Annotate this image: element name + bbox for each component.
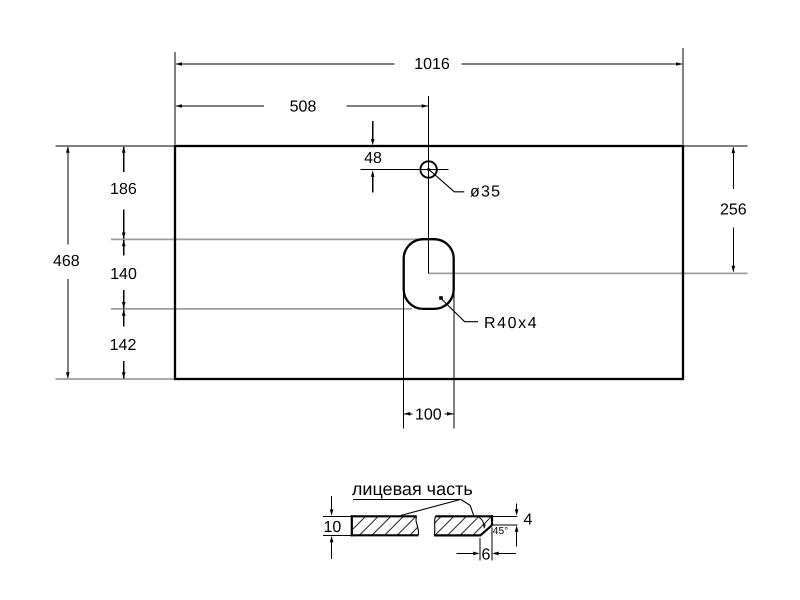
extension line oval top (gray) [111,238,424,240]
dimension 48 lower arrow [372,177,374,193]
svg-text:140: 140 [110,266,137,283]
svg-text:4: 4 [524,511,533,528]
dimension 256 arrows [732,147,736,154]
faucet hole circle [420,161,436,177]
dimension 256 line [732,148,734,190]
dimension 468 line [67,147,69,245]
dimension 1016 arrows [175,62,182,66]
svg-text:186: 186 [110,181,137,198]
dimension 100 line stubs [404,413,413,415]
section left slab left edge [351,515,353,536]
dimension 4 extension top [493,515,517,517]
extension line bottom-left (gray) [56,378,174,380]
dimension 4 upper arrow [516,504,518,510]
dimension 6 extension right [491,528,493,561]
leader R40x4 square dot [439,296,443,300]
section right slab bottom edge [434,534,481,536]
svg-text:10: 10 [324,519,342,536]
section: leader to left slab [401,499,461,515]
extension line top edge right (black) [684,145,747,147]
svg-text:R40x4: R40x4 [484,315,538,332]
dimension 142 line [123,309,125,326]
extension line top-left vertical (gray) [174,52,176,145]
extension line 100 left [403,289,405,429]
dimension 186 arrows [122,146,126,153]
svg-text:100: 100 [415,406,442,423]
section right slab top edge [435,515,493,517]
section right slab hatch [434,516,492,535]
svg-text:лицевая часть: лицевая часть [352,479,473,499]
dimension 142 arrows [122,309,126,316]
extension line oval bottom (gray) [111,308,412,310]
dimension 140 line [123,240,125,255]
dimension 10 upper arrow [331,496,333,510]
dimension 10 extension bottom [323,534,351,536]
dimension 100 arrows [404,412,411,416]
sink cutout rounded rect [404,239,454,309]
dimension 48 upper arrow [372,121,374,140]
dimension 10 extension top [323,516,351,518]
extension line top edge left (black) [56,145,174,147]
section left slab bottom edge [351,534,419,536]
dimension 140 arrows [122,240,126,247]
svg-text:6: 6 [482,546,491,563]
vertical centerline of faucet hole [428,96,430,273]
dimension 186 line [123,147,125,172]
dimension 468 arrows [66,146,70,153]
svg-text:1016: 1016 [414,56,450,73]
section: leader to right slab [461,499,474,516]
dimension 6 extension left [479,538,481,561]
section right slab break line [434,516,435,535]
section left slab top edge [351,515,417,517]
dimension 4 lower arrow [516,532,518,546]
extension line oval center right (gray) [429,272,748,274]
angle arc 45deg [479,518,483,525]
svg-text:142: 142 [110,337,137,354]
section right slab right edge [491,515,493,525]
section right slab chamfer edge [480,525,492,535]
dimension 1016 line [176,63,394,65]
extension line top-right vertical (gray) [682,48,684,145]
section: label underline [353,498,461,500]
dimension 508 arrows [175,104,182,108]
svg-text:ø35: ø35 [470,184,501,201]
section left slab hatch [352,516,419,535]
crosshair horizontal line [360,169,448,171]
leader o35 [429,170,464,192]
leader R40x4 [442,300,478,322]
dimension 6 right arrow [498,552,516,554]
svg-text:508: 508 [290,99,317,116]
svg-text:256: 256 [720,202,747,219]
svg-text:468: 468 [53,253,80,270]
section left slab break line [416,516,419,535]
dimension 10 lower arrow [331,542,333,559]
dimension 508 line [176,105,264,107]
extension line 100 right [453,289,455,429]
dimension 4 extension bottom [493,524,517,526]
faucet hole center dot [427,168,430,171]
svg-text:45°: 45° [493,526,508,537]
countertop outline [175,146,683,379]
dimension 6 left arrow [457,552,475,554]
svg-text:48: 48 [364,150,382,167]
